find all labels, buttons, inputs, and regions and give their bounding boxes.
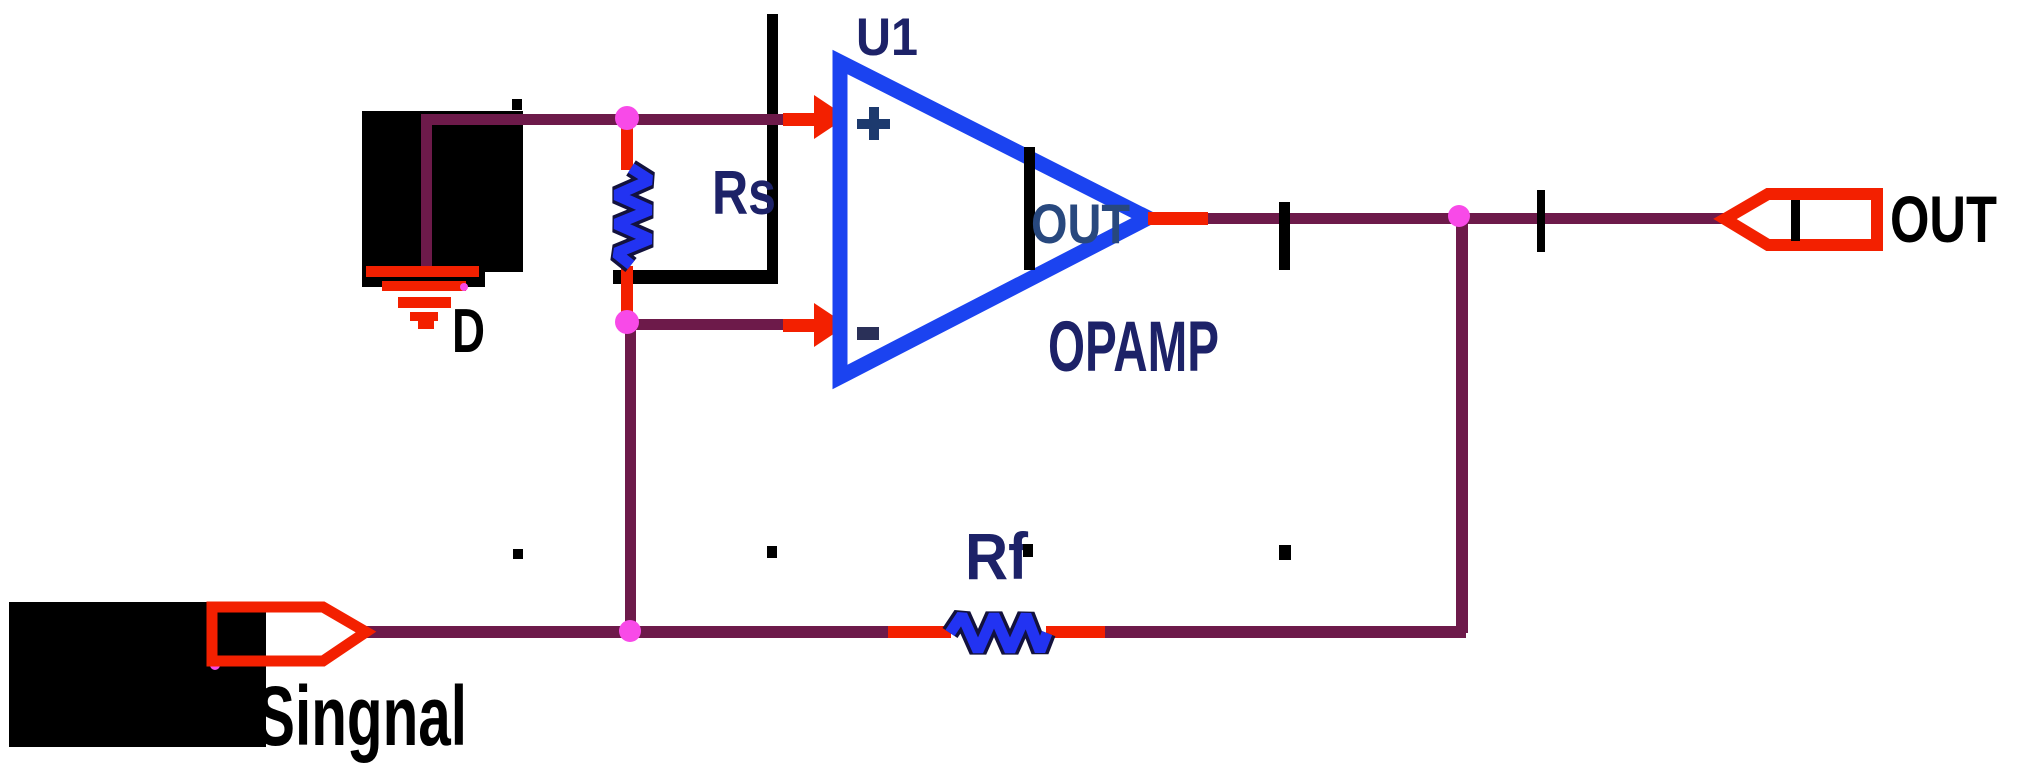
junction speck at signal port corner [210, 660, 220, 670]
svg-text:OUT: OUT [1031, 192, 1130, 255]
red segment at op-amp output [1148, 212, 1208, 225]
tick bar near output port [1537, 190, 1545, 252]
op-amp output wire [1200, 213, 1725, 224]
black stub wire from top into node column [613, 14, 778, 284]
op-amp U1 triangle [840, 62, 1148, 377]
input port Singnal (red pointer) [212, 607, 366, 661]
junction dot at non-inverting node [615, 106, 639, 130]
tick mark lower right [1279, 545, 1291, 560]
bottom feedback wire rail [366, 626, 888, 638]
power block B1 (black rectangle) [362, 111, 523, 287]
plus symbol at non-inverting input [857, 107, 890, 140]
tick mark lower middle [767, 546, 777, 558]
tick mark near power block [512, 99, 522, 110]
right vertical feedback wire [1456, 213, 1468, 633]
wire from node to op-amp inverting input [625, 319, 785, 330]
wire from power block to op-amp non-inverting input [421, 114, 786, 269]
wire node column down to feedback rail [625, 322, 636, 632]
junction dot on output wire [1448, 205, 1470, 227]
svg-text:OPAMP: OPAMP [1048, 308, 1219, 387]
resistor Rs body [616, 168, 650, 265]
arrow into inverting input [814, 303, 847, 347]
resistor Rs red leads [621, 118, 633, 326]
junction dot at inverting node [615, 310, 639, 334]
black pin bar inside op-amp [1024, 147, 1035, 270]
tick mark near Rf label [1023, 544, 1033, 557]
minus symbol at inverting input [857, 327, 879, 340]
resistor Rf red leads [888, 626, 1105, 638]
output port OUT (red pointer) [1725, 194, 1877, 245]
svg-text:D: D [452, 297, 485, 366]
red wire segment into inverting input [783, 319, 825, 332]
ground D [366, 266, 479, 329]
red wire segment into non-inverting input [783, 113, 825, 126]
svg-text:OUT: OUT [1890, 182, 1997, 256]
signal source block B2 (black rectangle) [9, 602, 266, 747]
resistor Rf body [950, 615, 1047, 651]
svg-text:U1: U1 [856, 8, 918, 67]
junction dot on bottom rail [619, 620, 641, 642]
arrow into non-inverting input [814, 95, 847, 139]
svg-text:Rf: Rf [965, 519, 1029, 593]
junction speck at ground bar [460, 283, 468, 291]
svg-text:Rs: Rs [712, 159, 776, 228]
tick bar on output wire [1279, 202, 1290, 270]
svg-text:Singnal: Singnal [256, 669, 467, 763]
tick mark lower left [513, 549, 523, 559]
